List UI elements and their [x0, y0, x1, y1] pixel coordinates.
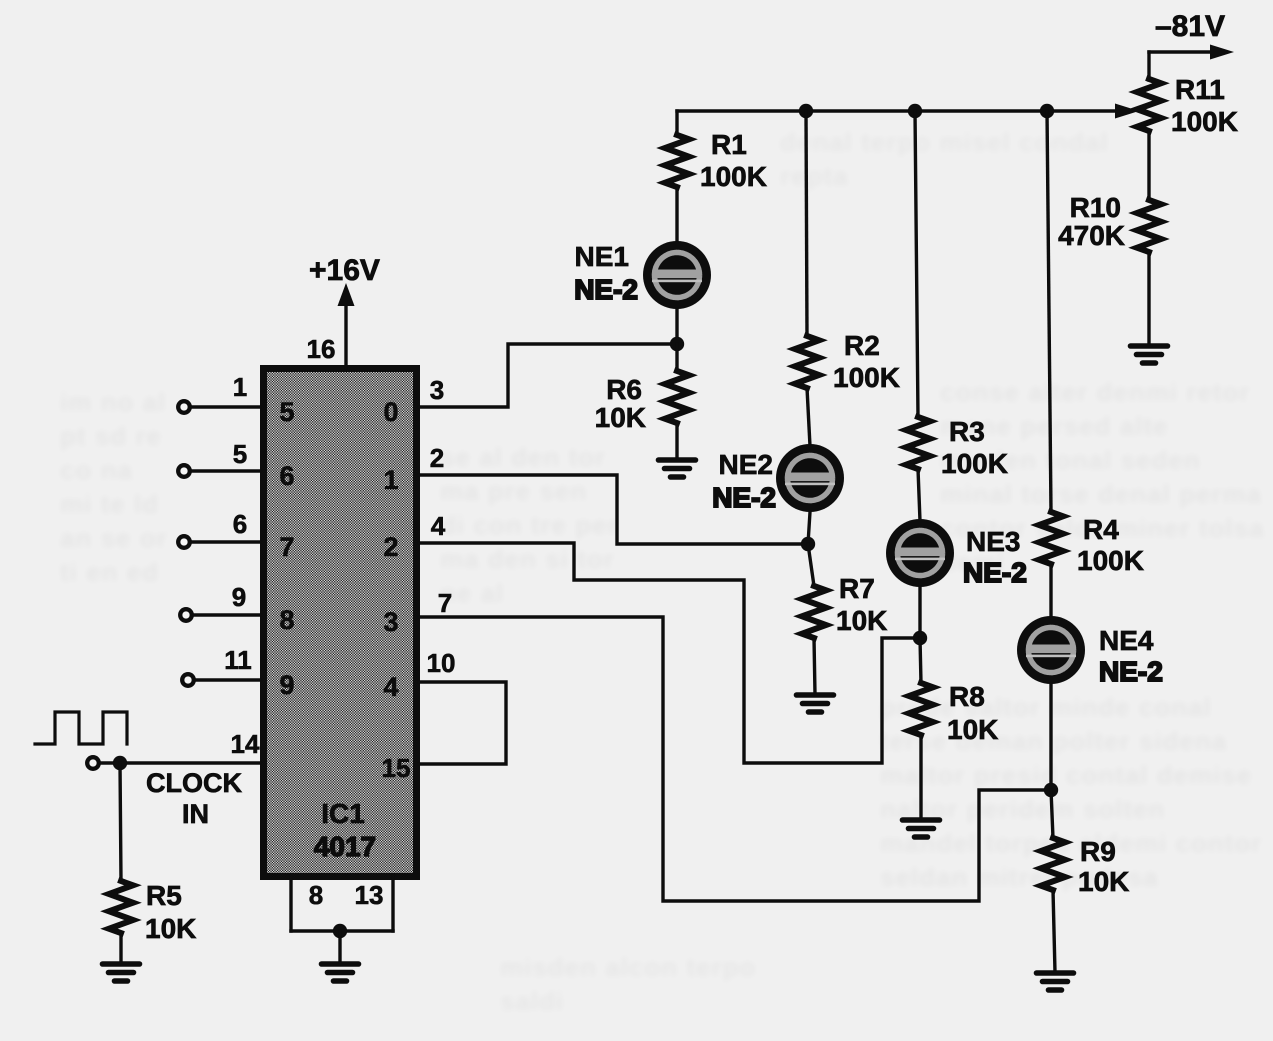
svg-text:470K: 470K: [1058, 220, 1125, 251]
terminal pin 11: [182, 674, 194, 686]
resistor R6: [665, 371, 689, 423]
wire R10 to ground: [1147, 252, 1150, 345]
R5 value label: [145, 880, 196, 944]
wire IC pin 7 output 3: [419, 617, 1045, 901]
svg-text:10K: 10K: [836, 605, 887, 636]
svg-text:14: 14: [231, 729, 260, 759]
svg-text:8: 8: [279, 605, 294, 635]
svg-text:R2: R2: [844, 330, 880, 361]
svg-text:NE-2: NE-2: [712, 482, 776, 513]
wire pin 11: [195, 678, 260, 681]
svg-text:0: 0: [383, 397, 398, 427]
wire clock to R5: [120, 763, 121, 881]
R9 value label: [1078, 836, 1129, 897]
wiper arrow into R11: [1115, 104, 1139, 119]
svg-text:IN: IN: [182, 799, 209, 829]
wire R2 to NE2: [807, 388, 810, 446]
wire R11 to R10: [1147, 131, 1150, 200]
svg-text:100K: 100K: [1077, 545, 1144, 576]
node bus-R2 junction: [799, 104, 813, 118]
svg-text:16: 16: [307, 334, 336, 364]
svg-text:10K: 10K: [145, 913, 196, 944]
wire R11 top to supply: [1147, 52, 1150, 80]
svg-text:4: 4: [431, 511, 446, 541]
R6 value label: [595, 374, 646, 433]
svg-text:100K: 100K: [1171, 106, 1238, 137]
wire supply horizontal: [1149, 50, 1212, 53]
svg-text:7: 7: [438, 588, 452, 618]
svg-text:1: 1: [233, 372, 247, 402]
ground R10: [1131, 346, 1168, 363]
node NE3-R8 junction: [913, 631, 927, 645]
svg-text:–81V: –81V: [1155, 10, 1225, 43]
svg-text:NE4: NE4: [1099, 625, 1154, 656]
R8 value label: [947, 681, 998, 745]
wire R4 to NE4: [1049, 564, 1052, 618]
wire pin 1: [191, 405, 260, 408]
svg-text:4: 4: [383, 672, 398, 702]
node NE1-R6 junction: [670, 337, 684, 351]
wire NE1 to node: [675, 309, 678, 344]
wire node to R7: [808, 544, 814, 586]
R2 value label: [833, 330, 900, 393]
wire pin 9: [193, 613, 260, 616]
svg-text:3: 3: [430, 375, 444, 405]
ground IC: [322, 964, 359, 981]
wire bus to R4: [1047, 111, 1051, 512]
wire node to R9: [1051, 790, 1053, 838]
R7 value label: [836, 573, 887, 636]
wire R7 to ground: [814, 638, 815, 694]
node IC ground junction: [333, 924, 347, 938]
svg-text:R10: R10: [1070, 192, 1121, 223]
-81V supply arrow: [1210, 45, 1234, 60]
svg-text:10K: 10K: [1078, 866, 1129, 897]
svg-text:R6: R6: [606, 374, 642, 405]
svg-text:R1: R1: [711, 129, 747, 160]
svg-text:10: 10: [427, 648, 456, 678]
svg-text:R3: R3: [949, 416, 985, 447]
wire R3 to NE3: [918, 469, 920, 521]
terminal pin 1: [178, 401, 190, 413]
terminal pin 9: [180, 609, 192, 621]
pin 13 stub: [391, 875, 394, 931]
ground R7: [797, 695, 834, 712]
wire R9 to ground: [1053, 890, 1055, 972]
svg-text:R5: R5: [146, 880, 182, 911]
interior output labels right column: [383, 397, 398, 702]
svg-text:9: 9: [279, 670, 294, 700]
svg-text:15: 15: [382, 753, 411, 783]
svg-text:5: 5: [279, 397, 294, 427]
svg-text:NE3: NE3: [966, 526, 1020, 557]
resistor R9: [1041, 838, 1065, 890]
wire IC pin 4 output 2: [419, 543, 914, 763]
resistor R4: [1039, 512, 1063, 564]
wire pins 8-13: [291, 929, 393, 932]
svg-text:2: 2: [383, 532, 398, 562]
svg-text:100K: 100K: [941, 448, 1008, 479]
svg-text:R4: R4: [1083, 514, 1119, 545]
svg-text:10K: 10K: [595, 402, 646, 433]
NE1 label: [574, 241, 638, 305]
svg-text:CLOCK: CLOCK: [146, 768, 242, 798]
pin 8 stub: [289, 875, 292, 931]
svg-text:3: 3: [383, 607, 398, 637]
wire node to R6: [675, 344, 678, 371]
svg-text:R11: R11: [1175, 74, 1225, 105]
clock input square wave symbol: [35, 712, 127, 744]
svg-text:6: 6: [279, 461, 294, 491]
ground R9: [1037, 973, 1074, 990]
neon lamp NE4: [1017, 616, 1085, 684]
resistor R2: [795, 336, 819, 388]
svg-text:8: 8: [309, 880, 323, 910]
svg-text:7: 7: [279, 532, 294, 562]
svg-text:11: 11: [224, 645, 252, 675]
R3 value label: [941, 416, 1008, 479]
NE2 label: [712, 449, 776, 513]
svg-text:6: 6: [233, 509, 247, 539]
svg-text:R9: R9: [1080, 836, 1116, 867]
svg-text:R8: R8: [949, 681, 985, 712]
wire NE4 to node: [1049, 684, 1052, 790]
node bus-R3 junction: [908, 104, 922, 118]
terminal pin 6: [178, 536, 190, 548]
svg-text:R7: R7: [839, 573, 875, 604]
svg-text:NE2: NE2: [719, 449, 773, 480]
neon lamp NE1: [643, 241, 711, 309]
svg-text:9: 9: [232, 582, 246, 612]
neon lamp NE2: [776, 444, 844, 512]
wire IC pin 10 to pin 15: [419, 682, 506, 764]
resistor R5: [109, 881, 133, 933]
NE3 label: [963, 526, 1027, 588]
wire NE2 to node: [808, 512, 810, 544]
svg-text:IC1: IC1: [321, 798, 365, 829]
wire pin 14 clock: [100, 761, 260, 764]
R11 value label: [1171, 74, 1238, 137]
svg-text:NE-2: NE-2: [963, 557, 1027, 588]
resistor R8: [909, 683, 933, 735]
svg-text:13: 13: [355, 880, 384, 910]
svg-text:NE1: NE1: [575, 241, 629, 272]
resistor R1: [665, 135, 689, 187]
+16V supply arrow: [338, 283, 355, 306]
node bus-R4 junction: [1040, 104, 1054, 118]
wire pin 6: [191, 540, 260, 543]
svg-text:2: 2: [430, 443, 444, 473]
wire bus to R2: [806, 111, 807, 336]
R1 value label: [700, 129, 767, 192]
svg-text:1: 1: [383, 465, 398, 495]
node NE2-R7 junction: [801, 537, 815, 551]
ground R8: [903, 820, 940, 837]
svg-text:+16V: +16V: [309, 254, 380, 287]
wire R5 to ground: [119, 933, 122, 963]
svg-text:NE-2: NE-2: [1099, 656, 1163, 687]
IC U1 4017 body: [264, 369, 417, 877]
ground R6: [659, 460, 696, 477]
NE4 label: [1099, 625, 1163, 687]
wire bus down to R1: [675, 111, 678, 135]
wire pin 5: [191, 469, 260, 472]
svg-text:NE-2: NE-2: [574, 274, 638, 305]
svg-text:10K: 10K: [947, 714, 998, 745]
svg-text:100K: 100K: [833, 362, 900, 393]
wire IC pin 3 output 0: [419, 344, 671, 407]
svg-text:4017: 4017: [314, 831, 376, 862]
terminal clock input: [87, 757, 99, 769]
resistor R7: [802, 586, 826, 638]
wire R1 to NE1: [675, 187, 678, 242]
R10 value label: [1058, 192, 1125, 251]
CLOCK IN label: [146, 768, 242, 829]
potentiometer R11: [1137, 79, 1161, 131]
interior output labels left column: [279, 397, 294, 700]
svg-text:100K: 100K: [700, 161, 767, 192]
wire R8 to ground: [919, 735, 922, 819]
node NE4-R9 junction: [1044, 783, 1058, 797]
wire to IC ground: [338, 931, 341, 963]
svg-text:5: 5: [233, 439, 247, 469]
wire NE3 to node: [918, 587, 921, 638]
R4 value label: [1077, 514, 1144, 576]
wire R6 to ground: [675, 423, 678, 459]
ground R5: [103, 964, 140, 981]
terminal pin 5: [178, 465, 190, 477]
resistor R3: [906, 417, 930, 469]
wire IC pin 2 output 1: [419, 475, 802, 544]
pin 16 stub wire: [344, 306, 347, 368]
resistor R10: [1137, 200, 1161, 252]
node clock junction: [113, 756, 127, 770]
neon lamp NE3: [886, 519, 954, 587]
wire top supply bus: [677, 109, 1117, 112]
wire bus to R3: [915, 111, 918, 417]
wire node to R8: [920, 638, 921, 683]
